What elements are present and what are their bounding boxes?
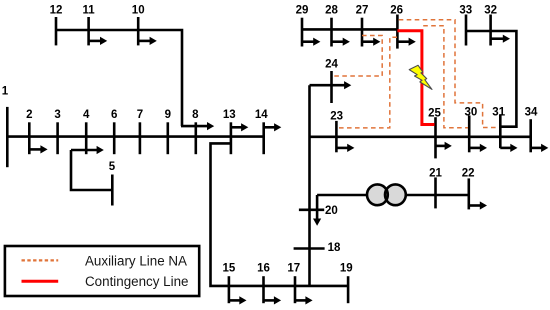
svg-text:24: 24 (325, 58, 338, 70)
bus 17 (294, 276, 297, 303)
svg-text:23: 23 (330, 111, 343, 123)
svg-text:3: 3 (54, 109, 60, 121)
svg-text:29: 29 (296, 4, 309, 16)
svg-text:Auxiliary Line NA: Auxiliary Line NA (85, 253, 187, 268)
auxiliary line NA bus27-bus24 (dashed) (333, 36, 382, 77)
svg-text:6: 6 (111, 109, 117, 121)
contingency line bus26-bus25 (red) (397, 31, 434, 125)
load arrow bus 14 (264, 123, 282, 131)
load arrow bus 32 (491, 35, 510, 43)
load arrow bus 16 (264, 296, 282, 304)
wire line buses 33-32 down to bus 31 (466, 31, 516, 127)
bus 31 (499, 114, 502, 148)
load arrow bus 4 (fed from bus 5 branch) (71, 146, 104, 154)
bus 16 (262, 276, 265, 303)
load arrow bus 13 (231, 123, 248, 131)
svg-text:Contingency Line: Contingency Line (85, 274, 188, 289)
svg-text:1: 1 (2, 86, 9, 98)
svg-text:15: 15 (223, 263, 236, 275)
wire branch line buses 12-10 into bus 8 (56, 30, 182, 126)
load arrow bus 11 (89, 37, 108, 45)
svg-text:8: 8 (192, 109, 199, 121)
bus 25 (434, 117, 437, 158)
bus 4 (85, 122, 88, 154)
legend box (5, 246, 199, 296)
load arrow bus 23 (336, 144, 354, 152)
bus 12 (55, 17, 58, 45)
wire main vertical feeder (bus 24 down to bottom line) (308, 85, 311, 286)
svg-text:14: 14 (255, 109, 268, 121)
svg-text:16: 16 (257, 263, 270, 275)
bus 19 (347, 276, 350, 303)
wire feeder bus13 to buses 15-19 (211, 143, 349, 286)
bus 7 (139, 122, 142, 154)
svg-text:9: 9 (165, 109, 171, 121)
bus 23 (335, 121, 338, 152)
load arrow bus 34 (531, 144, 549, 152)
auxiliary line NA bus26-bus23 (dashed) (338, 37, 397, 128)
wire branch to bus 5 (71, 150, 112, 190)
load arrow bus 15 (229, 296, 247, 304)
bus 32 (489, 15, 492, 46)
svg-text:33: 33 (459, 4, 472, 16)
wire branch to transformer and buses 21-22 (317, 194, 469, 197)
svg-text:17: 17 (287, 263, 300, 275)
load arrow bus 29 (302, 38, 320, 46)
load arrow bus 22 (469, 201, 487, 209)
wire line buses 29-26 (302, 28, 397, 31)
auxiliary line NA bus26-bus30 (dashed) (423, 26, 468, 128)
svg-text:21: 21 (429, 168, 442, 180)
load arrow bus 24 (310, 81, 352, 89)
load arrow bus 20 (downward) (313, 195, 321, 226)
svg-text:19: 19 (340, 263, 353, 275)
bus 5 (111, 175, 114, 206)
bus 1 (6, 107, 9, 167)
bus 29 (301, 18, 304, 47)
wire lower line buses 23-34 (310, 136, 531, 139)
bus 2 (28, 122, 31, 154)
svg-text:7: 7 (137, 109, 143, 121)
bus 27 (361, 18, 364, 47)
svg-text:25: 25 (428, 107, 441, 119)
svg-text:2: 2 (26, 109, 32, 121)
load arrow bus 2 (29, 145, 47, 153)
svg-text:11: 11 (83, 4, 96, 16)
bus 13 (230, 122, 233, 154)
legend sample: auxiliary dashed line (22, 259, 59, 261)
load arrow bus 26 (397, 38, 415, 46)
wire main feeder line buses 1-14 (7, 135, 263, 138)
bus 26 (396, 15, 399, 49)
svg-text:4: 4 (83, 109, 90, 121)
bus 9 (167, 122, 170, 154)
svg-text:13: 13 (223, 109, 236, 121)
svg-text:12: 12 (50, 4, 63, 16)
bus 3 (56, 122, 59, 154)
svg-text:34: 34 (525, 107, 538, 119)
load arrow bus 17 (295, 296, 313, 304)
auxiliary line NA bus26-bus31 (dashed) (399, 20, 499, 128)
svg-text:30: 30 (465, 107, 478, 119)
bus 30 (468, 115, 471, 152)
load arrow bus 30 (469, 144, 487, 152)
fault lightning bolt (409, 65, 432, 89)
svg-text:10: 10 (132, 4, 145, 16)
svg-text:28: 28 (325, 4, 338, 16)
load arrow bus 8 (end of branch from bus 10) (181, 122, 214, 130)
transformer T1 (367, 184, 406, 205)
bus 22 (467, 178, 470, 209)
load arrow bus 31 (500, 144, 517, 152)
svg-text:26: 26 (390, 4, 403, 16)
svg-text:18: 18 (328, 242, 341, 254)
bus 24 (330, 71, 333, 103)
svg-text:22: 22 (462, 168, 475, 180)
svg-text:32: 32 (484, 4, 497, 16)
bus 33 (465, 15, 468, 46)
svg-text:31: 31 (492, 107, 505, 119)
load arrow bus 10 (138, 37, 157, 45)
bus 34 (529, 119, 532, 152)
bus 6 (113, 122, 116, 154)
bus 20 (299, 209, 324, 212)
bus 15 (228, 276, 231, 303)
svg-text:5: 5 (109, 161, 116, 173)
bus 18 (294, 247, 325, 250)
bus 28 (330, 18, 333, 47)
bus 8 (195, 122, 198, 154)
bus 10 (137, 17, 140, 45)
bus 11 (87, 17, 90, 45)
svg-text:27: 27 (356, 4, 369, 16)
legend sample: contingency red line (22, 280, 59, 283)
bus 14 (262, 122, 265, 154)
load arrow bus 25 (436, 142, 452, 150)
bus 21 (434, 177, 437, 208)
load arrow bus 28 (332, 38, 350, 46)
svg-text:20: 20 (325, 205, 338, 217)
load arrow bus 27 (362, 38, 380, 46)
